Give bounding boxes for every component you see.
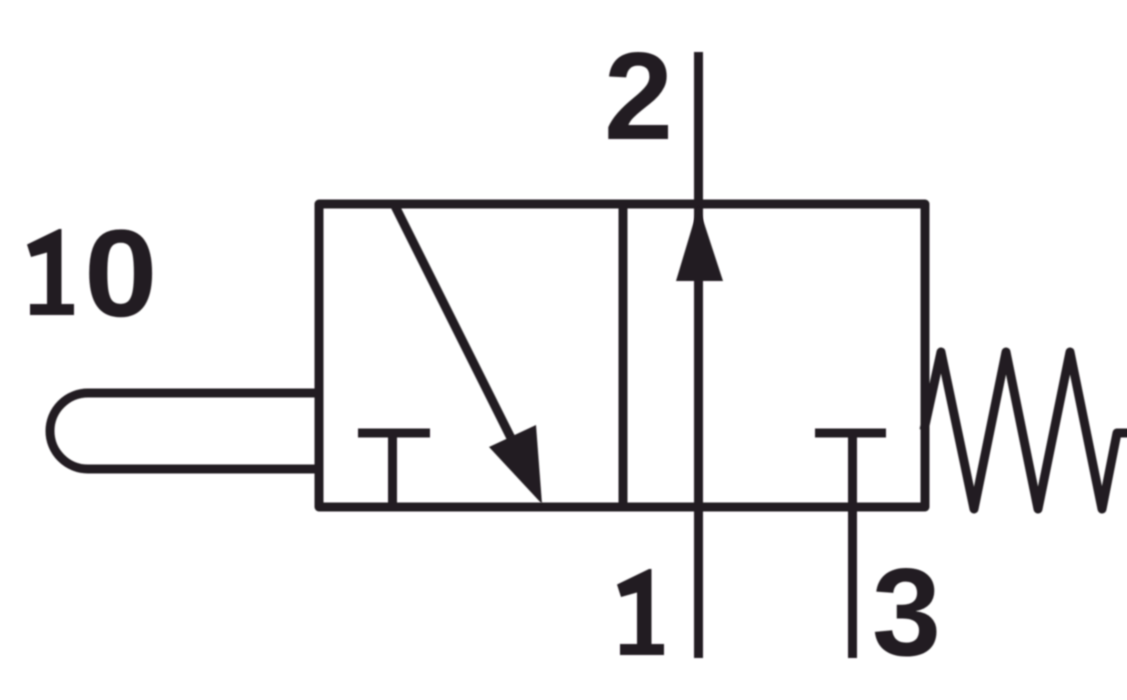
wire port 2 line bbox=[694, 52, 703, 204]
arrowhead diagonal bbox=[489, 425, 542, 504]
position divider bbox=[619, 204, 628, 507]
wire flow line 1-2 bbox=[694, 204, 703, 658]
svg-text:2: 2 bbox=[604, 28, 673, 166]
arrowhead up (flow 1 to 2) bbox=[676, 206, 723, 281]
blocked port T left bar bbox=[358, 429, 430, 438]
push button actuator 10 bbox=[50, 393, 319, 469]
svg-text:0: 0 bbox=[84, 205, 158, 343]
label 1 bbox=[617, 569, 664, 655]
wire port 3 stem bbox=[848, 433, 857, 658]
blocked port T right bbox=[815, 429, 886, 438]
diagonal flow line bbox=[395, 206, 514, 444]
valve body box bbox=[319, 204, 925, 507]
spring return bbox=[924, 352, 1127, 509]
label 10 digit 1 bbox=[27, 229, 74, 315]
blocked port T left stem bbox=[388, 433, 397, 507]
svg-text:3: 3 bbox=[872, 544, 941, 682]
